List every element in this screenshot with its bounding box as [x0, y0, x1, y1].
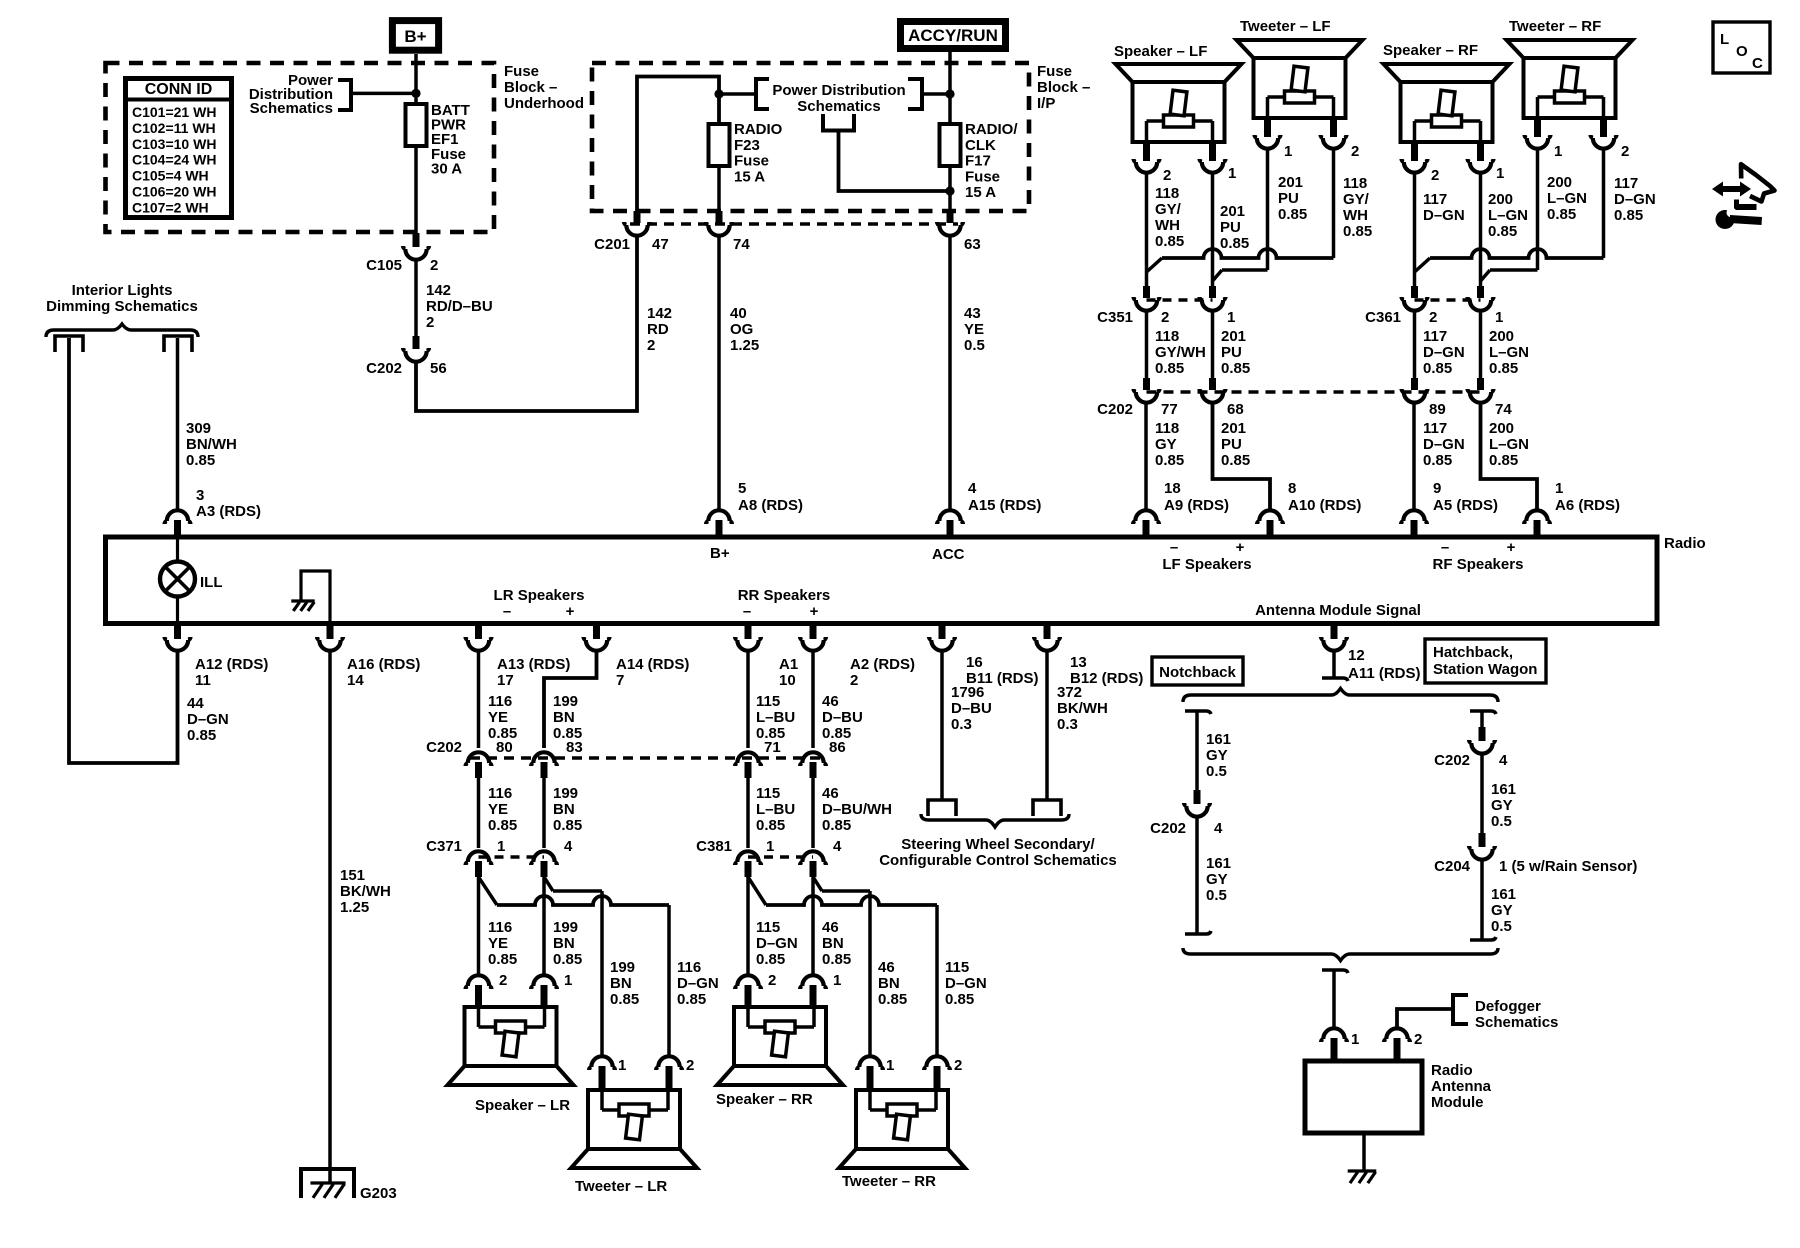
svg-text:PU: PU [1221, 344, 1242, 361]
svg-text:Hatchback,: Hatchback, [1433, 644, 1513, 661]
svg-text:3: 3 [196, 487, 204, 504]
wire antenna module to ground [1362, 1133, 1366, 1170]
svg-text:10: 10 [779, 672, 796, 689]
svg-text:40: 40 [730, 305, 747, 322]
wire A13 to C202-80 [477, 652, 481, 748]
svg-text:115: 115 [756, 785, 780, 802]
wire C202-80 to C371-1 [477, 778, 481, 848]
svg-text:ACC: ACC [932, 546, 965, 563]
speaker RR [717, 1007, 843, 1085]
CONN ID table [126, 79, 232, 218]
tweeter LF [1237, 40, 1363, 118]
svg-text:–: – [1170, 539, 1178, 556]
radio pin A2 [810, 623, 817, 639]
svg-text:43: 43 [964, 305, 981, 322]
svg-text:C204: C204 [1434, 858, 1471, 875]
svg-text:1: 1 [1351, 1031, 1359, 1048]
svg-text:0.85: 0.85 [1155, 233, 1184, 250]
svg-text:2: 2 [430, 257, 438, 274]
wire notchback path lower segment [1195, 818, 1199, 934]
svg-text:D–BU: D–BU [951, 700, 992, 717]
svg-text:1.25: 1.25 [730, 337, 759, 354]
wire speaker RF pin 1 to C361-1 [1479, 174, 1483, 286]
svg-text:D–GN: D–GN [756, 935, 798, 952]
svg-text:C202: C202 [1150, 820, 1186, 837]
svg-text:C371: C371 [426, 838, 462, 855]
svg-text:RF Speakers: RF Speakers [1433, 556, 1524, 573]
svg-text:BN/WH: BN/WH [186, 436, 237, 453]
svg-text:A11 (RDS): A11 (RDS) [1348, 665, 1421, 682]
svg-text:0.85: 0.85 [1221, 452, 1250, 469]
box notchback [1152, 657, 1243, 685]
svg-text:0.85: 0.85 [1343, 223, 1372, 240]
speaker RR pin 2 [735, 975, 761, 989]
connector C202 dashed line (row 80-86) [470, 756, 822, 760]
svg-text:Schematics: Schematics [797, 98, 880, 115]
tweeter LF pin 1 [1264, 118, 1271, 137]
wire C202-89 to radio A5 [1412, 404, 1416, 510]
svg-text:BK/WH: BK/WH [340, 883, 391, 900]
wire branch C381-4 to tweeter RR pin 1 [813, 877, 822, 891]
svg-text:YE: YE [488, 801, 508, 818]
wire branch C371-4 to tweeter LR pin 1 [544, 877, 553, 891]
connector C201 pin 74 [716, 211, 723, 223]
svg-text:C103=10 WH: C103=10 WH [132, 136, 216, 152]
connector C202 dashed line (row 77-74) [1147, 390, 1481, 394]
svg-text:2: 2 [850, 672, 858, 689]
wire fuse EF1 to C105 [414, 146, 418, 233]
svg-text:+: + [1507, 539, 1516, 556]
wire C202-68 to radio A10 [1213, 404, 1271, 510]
radio pin A13 [475, 623, 482, 639]
speaker LR pin 1 [531, 975, 557, 989]
wire branch C381-1 to tweeter RR pin 2 [748, 877, 766, 905]
terminal interior lights right [164, 336, 192, 352]
svg-text:O: O [1736, 43, 1748, 60]
svg-text:Block –: Block – [1037, 79, 1090, 96]
svg-text:GY: GY [1491, 902, 1513, 919]
svg-text:C102=11 WH: C102=11 WH [132, 120, 216, 136]
svg-text:A13 (RDS): A13 (RDS) [497, 656, 570, 673]
svg-text:89: 89 [1429, 401, 1446, 418]
wire 309 BN/WH to radio A3 [176, 338, 180, 509]
svg-text:0.85: 0.85 [610, 991, 639, 1008]
radio pin A10 [1257, 510, 1283, 524]
svg-text:Schematics: Schematics [1475, 1014, 1558, 1031]
svg-text:A6 (RDS): A6 (RDS) [1555, 497, 1620, 514]
svg-text:0.85: 0.85 [945, 991, 974, 1008]
wire stub connector to F17 output [839, 131, 951, 192]
svg-text:A1: A1 [779, 656, 798, 673]
wire C202-86 to C381-4 [811, 778, 815, 848]
svg-text:PU: PU [1221, 436, 1242, 453]
svg-text:Speaker – RF: Speaker – RF [1383, 42, 1478, 59]
connector C202 pin 77 [1143, 378, 1150, 390]
antenna module pin 2 [1384, 1028, 1410, 1042]
svg-text:L–BU: L–BU [756, 709, 795, 726]
svg-text:2: 2 [686, 1057, 694, 1074]
svg-text:4: 4 [968, 480, 977, 497]
svg-text:1: 1 [833, 972, 841, 989]
connector C202 pin 4 (notchback) [1194, 790, 1201, 804]
terminal interior lights left [55, 336, 83, 352]
svg-text:Underhood: Underhood [504, 95, 584, 112]
svg-text:0.85: 0.85 [878, 991, 907, 1008]
svg-text:Fuse: Fuse [504, 63, 539, 80]
svg-text:71: 71 [764, 739, 781, 756]
connector C351 dashed link [1147, 298, 1213, 302]
svg-text:2: 2 [499, 972, 507, 989]
svg-text:C351: C351 [1097, 309, 1133, 326]
wire notchback path start hook [1185, 711, 1211, 714]
svg-text:C202: C202 [426, 739, 462, 756]
tweeter RR pin 1 [857, 1056, 883, 1070]
wire antenna pin 2 to defogger [1397, 1009, 1452, 1028]
svg-text:201: 201 [1221, 420, 1246, 437]
svg-text:309: 309 [186, 420, 211, 437]
svg-text:Antenna Module Signal: Antenna Module Signal [1255, 602, 1421, 619]
svg-text:B+: B+ [404, 27, 426, 46]
svg-text:0.5: 0.5 [1206, 763, 1227, 780]
svg-text:BN: BN [822, 935, 844, 952]
svg-text:0.85: 0.85 [488, 951, 517, 968]
antenna module pin 1 [1321, 1028, 1347, 1042]
speaker LR pin 2 [466, 975, 492, 989]
svg-text:Tweeter – LF: Tweeter – LF [1240, 18, 1331, 35]
terminal steering right [1033, 800, 1061, 816]
wire A11 end tick [1322, 678, 1348, 681]
svg-text:+: + [1236, 539, 1245, 556]
svg-text:0.85: 0.85 [1155, 452, 1184, 469]
svg-text:C107=2 WH: C107=2 WH [132, 199, 209, 215]
svg-text:46: 46 [822, 919, 839, 936]
svg-text:201: 201 [1221, 328, 1246, 345]
brace antenna split (upper) [1183, 689, 1498, 703]
svg-text:Tweeter – RF: Tweeter – RF [1509, 18, 1601, 35]
wire notchback path end tick [1185, 931, 1211, 934]
svg-text:–: – [743, 603, 751, 620]
connector C105 pin 2 [413, 233, 420, 247]
wire antenna module pin1 hook [1322, 970, 1348, 973]
connector C381 pin 1 [735, 851, 761, 865]
svg-text:15 A: 15 A [965, 184, 996, 201]
svg-text:L–GN: L–GN [1489, 344, 1529, 361]
wire C202-77 to radio A9 [1144, 404, 1148, 510]
svg-text:A9 (RDS): A9 (RDS) [1164, 497, 1229, 514]
wire B12 to steering terminal [1045, 652, 1049, 800]
svg-text:GY/WH: GY/WH [1155, 344, 1206, 361]
svg-text:GY: GY [1206, 747, 1228, 764]
svg-text:161: 161 [1206, 731, 1231, 748]
svg-text:RR Speakers: RR Speakers [738, 587, 831, 604]
svg-text:117: 117 [1614, 175, 1638, 192]
svg-text:GY: GY [1491, 797, 1513, 814]
svg-text:12: 12 [1348, 647, 1365, 664]
svg-text:B+: B+ [710, 545, 730, 562]
brace interior lights [46, 324, 198, 337]
svg-text:RD: RD [647, 321, 669, 338]
svg-text:63: 63 [964, 236, 981, 253]
svg-text:15 A: 15 A [734, 168, 765, 185]
connector C351 pin 1 [1209, 286, 1216, 298]
internal bus wire 47 to F23 [637, 77, 719, 225]
svg-text:1: 1 [497, 838, 505, 855]
svg-text:0.3: 0.3 [951, 716, 972, 733]
svg-text:199: 199 [553, 693, 578, 710]
svg-text:0.85: 0.85 [1614, 207, 1643, 224]
power feed ACCY/RUN box [901, 22, 1006, 49]
connector C381 pin 4 [800, 851, 826, 865]
svg-text:161: 161 [1491, 886, 1516, 903]
svg-text:RADIO: RADIO [734, 121, 783, 138]
svg-text:0.85: 0.85 [1220, 235, 1249, 252]
connector C361 dashed link [1415, 298, 1481, 302]
svg-text:Dimming Schematics: Dimming Schematics [46, 298, 198, 315]
svg-text:0.3: 0.3 [1057, 716, 1078, 733]
svg-text:2: 2 [1621, 143, 1629, 160]
speaker LF pin 2 [1143, 142, 1150, 161]
svg-text:A8 (RDS): A8 (RDS) [738, 497, 803, 514]
speaker RF pin 2 [1411, 142, 1418, 161]
connector C361 pin 2 [1411, 286, 1418, 298]
svg-text:D–GN: D–GN [1423, 344, 1465, 361]
wire B+ box to fuse EF1 [414, 54, 418, 104]
svg-text:Power Distribution: Power Distribution [772, 82, 905, 99]
svg-text:0.85: 0.85 [1488, 223, 1517, 240]
svg-text:1: 1 [1227, 309, 1235, 326]
junction dot F17 output [945, 186, 954, 195]
bracket left of power distribution [756, 79, 769, 109]
svg-text:C: C [1752, 55, 1763, 72]
connector C202 pin 71 [735, 752, 761, 766]
ground below antenna module [1348, 1169, 1377, 1172]
box hatchback station wagon [1425, 639, 1546, 683]
wire A16 to G203 [328, 652, 332, 1168]
wire C371-1 to speaker LR pin 2 [477, 877, 481, 974]
connector C201 pin 47 [634, 211, 641, 223]
svg-text:F17: F17 [965, 153, 991, 170]
svg-text:116: 116 [488, 693, 512, 710]
svg-text:199: 199 [553, 785, 578, 802]
tweeter RF [1507, 40, 1633, 118]
svg-text:0.85: 0.85 [1278, 206, 1307, 223]
reference tool icon [1712, 182, 1751, 197]
brace steering wheel [921, 814, 1069, 827]
speaker RR pin 1 [800, 975, 826, 989]
svg-text:0.85: 0.85 [1489, 452, 1518, 469]
svg-text:PU: PU [1220, 219, 1241, 236]
svg-text:2: 2 [1163, 167, 1171, 184]
svg-text:D–GN: D–GN [1423, 207, 1465, 224]
wire A11 down [1332, 652, 1336, 678]
radio pin B11 [939, 623, 946, 639]
svg-text:0.85: 0.85 [1547, 206, 1576, 223]
bracket to power distribution (underhood) [338, 80, 351, 110]
connector C202 pin 89 [1411, 378, 1418, 390]
wire right bracket to F17 feed [922, 92, 950, 96]
svg-text:30 A: 30 A [431, 160, 462, 177]
fuse F23 RADIO 15A [717, 124, 721, 166]
speaker RF pin 1 [1477, 142, 1484, 161]
svg-text:1: 1 [1554, 143, 1562, 160]
radio pin A9 [1133, 510, 1159, 524]
svg-text:Schematics: Schematics [250, 100, 333, 117]
svg-text:2: 2 [426, 314, 434, 331]
svg-text:118: 118 [1343, 175, 1367, 192]
wire tweeter RF pin 2 to C361-2 [1602, 150, 1606, 258]
svg-text:C105=4 WH: C105=4 WH [132, 168, 209, 184]
tweeter LF pin 2 [1330, 118, 1337, 137]
wire interior lights left to A12 return [69, 338, 178, 763]
svg-text:Configurable Control Schematic: Configurable Control Schematics [879, 852, 1117, 869]
svg-text:RADIO/: RADIO/ [965, 121, 1018, 138]
svg-text:7: 7 [616, 672, 624, 689]
svg-text:C361: C361 [1365, 309, 1401, 326]
svg-text:1: 1 [886, 1057, 894, 1074]
tweeter RR pin 2 [924, 1056, 950, 1070]
svg-text:5: 5 [738, 480, 746, 497]
fuse F17 RADIO/CLK 15A [948, 124, 952, 166]
svg-text:2: 2 [647, 337, 655, 354]
svg-text:RD/D–BU: RD/D–BU [426, 298, 493, 315]
svg-text:86: 86 [829, 739, 846, 756]
svg-text:201: 201 [1220, 203, 1245, 220]
wire left bracket to F23 feed [719, 92, 756, 96]
svg-text:2: 2 [954, 1057, 962, 1074]
svg-text:0.85: 0.85 [1423, 452, 1452, 469]
svg-text:0.85: 0.85 [553, 817, 582, 834]
svg-text:1 (5 w/Rain Sensor): 1 (5 w/Rain Sensor) [1499, 858, 1637, 875]
svg-text:0.85: 0.85 [1423, 360, 1452, 377]
svg-text:2: 2 [1161, 309, 1169, 326]
connector C201 dashed line [630, 222, 958, 226]
wire C202-56 to C201-47 [416, 237, 637, 411]
connector C202 pin 74 [1477, 378, 1484, 390]
svg-text:2: 2 [1414, 1031, 1422, 1048]
svg-text:D–GN: D–GN [1614, 191, 1656, 208]
svg-text:D–BU/WH: D–BU/WH [822, 801, 892, 818]
svg-text:D–GN: D–GN [945, 975, 987, 992]
svg-text:46: 46 [822, 785, 839, 802]
svg-text:A3 (RDS): A3 (RDS) [196, 503, 261, 520]
svg-text:4: 4 [833, 838, 842, 855]
wire C351-2 to C202-77 [1145, 312, 1149, 378]
svg-text:16: 16 [966, 654, 983, 671]
svg-text:L–GN: L–GN [1489, 436, 1529, 453]
svg-text:1: 1 [1555, 480, 1563, 497]
svg-text:1: 1 [1496, 165, 1504, 182]
svg-text:PU: PU [1278, 190, 1299, 207]
svg-text:77: 77 [1161, 401, 1178, 418]
svg-text:A16 (RDS): A16 (RDS) [347, 656, 420, 673]
wire C381-1 to speaker RR pin 2 [746, 877, 750, 974]
radio antenna module box [1305, 1061, 1422, 1133]
radio pin B12 [1044, 623, 1051, 639]
svg-text:13: 13 [1070, 654, 1087, 671]
wire tweeter LF pin 1 to C351-1 [1266, 150, 1270, 270]
svg-text:–: – [1441, 539, 1449, 556]
wire F23 to C201-74 [717, 166, 721, 211]
speaker LR [448, 1007, 574, 1085]
wire tweeter RF pin 1 to C361-1 [1536, 150, 1540, 270]
wire hatchback path segment 2 [1480, 755, 1484, 833]
svg-text:L–GN: L–GN [1488, 207, 1528, 224]
svg-text:200: 200 [1489, 328, 1514, 345]
svg-text:0.85: 0.85 [677, 991, 706, 1008]
svg-text:CONN ID: CONN ID [145, 81, 213, 98]
svg-text:BN: BN [553, 709, 575, 726]
svg-text:200: 200 [1547, 174, 1572, 191]
svg-text:+: + [810, 603, 819, 620]
svg-text:2: 2 [1351, 143, 1359, 160]
svg-text:Steering Wheel Secondary/: Steering Wheel Secondary/ [901, 836, 1095, 853]
svg-text:GY: GY [1155, 436, 1177, 453]
svg-text:WH: WH [1155, 217, 1180, 234]
svg-text:C106=20 WH: C106=20 WH [132, 184, 216, 200]
wire bracket to B+ feed [351, 92, 416, 96]
svg-text:Tweeter – LR: Tweeter – LR [575, 1178, 667, 1195]
svg-text:142: 142 [647, 305, 672, 322]
wire F17 to C201-63 [948, 166, 952, 211]
svg-text:A12 (RDS): A12 (RDS) [195, 656, 268, 673]
svg-text:C201: C201 [594, 236, 630, 253]
svg-text:OG: OG [730, 321, 753, 338]
tweeter LR pin 2 [656, 1056, 682, 1070]
svg-text:Module: Module [1431, 1094, 1484, 1111]
connector C361 pin 1 [1477, 286, 1484, 298]
svg-text:44: 44 [187, 695, 204, 712]
terminal steering left [928, 800, 956, 816]
svg-text:0.85: 0.85 [1489, 360, 1518, 377]
svg-text:Speaker – LR: Speaker – LR [475, 1097, 570, 1114]
svg-text:Fuse: Fuse [1037, 63, 1072, 80]
radio pin A3 [165, 510, 191, 524]
svg-text:118: 118 [1155, 185, 1179, 202]
svg-text:0.85: 0.85 [553, 951, 582, 968]
svg-text:199: 199 [610, 959, 635, 976]
tweeter RR [839, 1090, 965, 1168]
svg-text:1: 1 [1284, 143, 1292, 160]
svg-text:A2 (RDS): A2 (RDS) [850, 656, 915, 673]
svg-text:Interior Lights: Interior Lights [72, 282, 173, 299]
svg-text:4: 4 [1499, 752, 1508, 769]
svg-text:115: 115 [756, 919, 780, 936]
wire hatchback path segment 1 [1480, 711, 1484, 727]
fuse block underhood dashed box [106, 63, 495, 232]
svg-text:WH: WH [1343, 207, 1368, 224]
wire C371-4 to speaker LR pin 1 [542, 877, 546, 974]
svg-text:YE: YE [964, 321, 984, 338]
svg-text:117: 117 [1423, 420, 1447, 437]
svg-text:200: 200 [1488, 191, 1513, 208]
svg-text:A14 (RDS): A14 (RDS) [616, 656, 689, 673]
svg-text:BK/WH: BK/WH [1057, 700, 1108, 717]
tweeter RF pin 1 [1534, 118, 1541, 137]
svg-text:117: 117 [1423, 191, 1447, 208]
svg-text:201: 201 [1278, 174, 1303, 191]
svg-text:GY/: GY/ [1155, 201, 1182, 218]
svg-text:YE: YE [488, 935, 508, 952]
svg-text:0.85: 0.85 [756, 951, 785, 968]
connector C351 pin 2 [1143, 286, 1150, 298]
connector C202 pin 80 [466, 752, 492, 766]
svg-text:BN: BN [878, 975, 900, 992]
speaker LF pin 1 [1209, 142, 1216, 161]
svg-text:118: 118 [1155, 328, 1179, 345]
svg-text:46: 46 [822, 693, 839, 710]
tweeter RF pin 2 [1600, 118, 1607, 137]
svg-text:0.85: 0.85 [488, 817, 517, 834]
